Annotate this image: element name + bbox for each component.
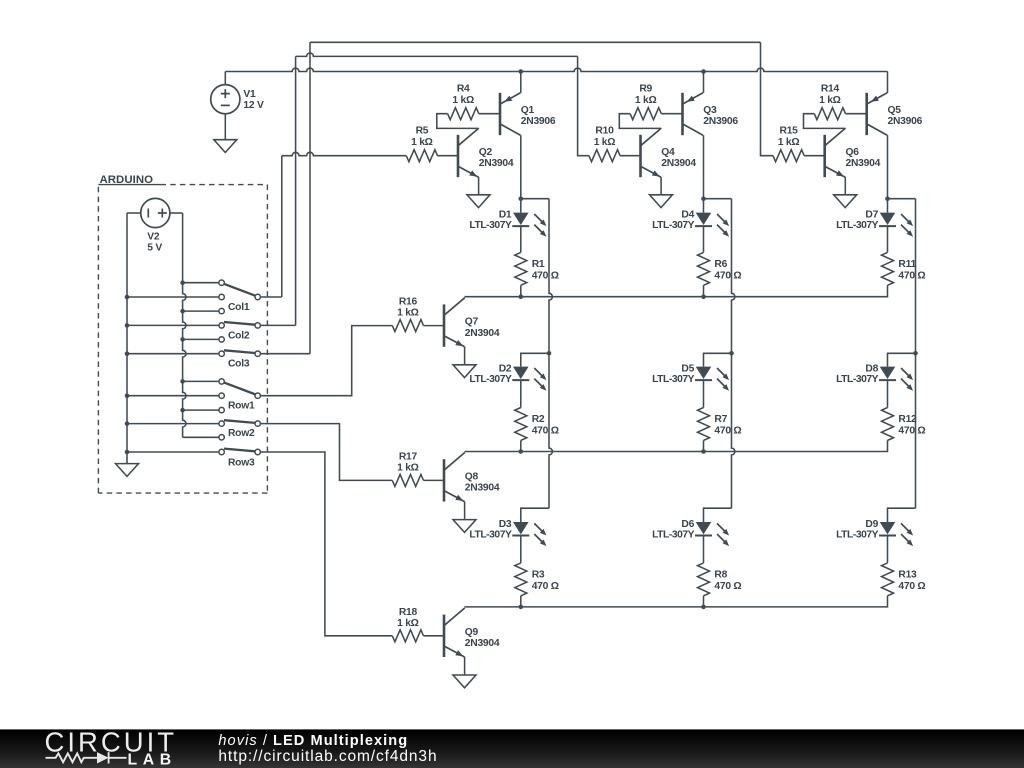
node 5V rail Col3 <box>180 337 185 342</box>
svg-text:Q2: Q2 <box>479 147 493 158</box>
LED D2 LTL-307Y <box>513 367 529 379</box>
LED D8 LTL-307Y <box>880 367 896 379</box>
wire Q6 emitter <box>844 177 846 195</box>
wire R1 to row bus <box>520 285 522 296</box>
wire Row1 out <box>260 326 392 396</box>
wire branch vertical col1 <box>549 199 552 509</box>
LED D9 LTL-307Y <box>880 522 896 534</box>
wire Q1 collector <box>520 135 522 199</box>
resistor R10 1k <box>589 150 620 162</box>
svg-text:LTL-307Y: LTL-307Y <box>836 220 879 231</box>
svg-text:Col1: Col1 <box>228 302 250 313</box>
wire Q3 collector <box>703 135 705 199</box>
svg-text:Q1: Q1 <box>521 105 535 116</box>
wire Q7 emitter <box>464 347 466 365</box>
svg-text:1 kΩ: 1 kΩ <box>819 95 841 106</box>
svg-text:R7: R7 <box>714 414 727 425</box>
wire gnd feed Col3 <box>127 353 219 355</box>
node 5V rail Col2 <box>180 309 185 314</box>
wire Col2 top run <box>296 53 578 56</box>
ground Q7 <box>453 365 476 378</box>
svg-text:R18: R18 <box>399 607 418 618</box>
wire Row2 out <box>260 424 392 481</box>
wire branch jog col2 <box>704 198 732 200</box>
wire Col2 out <box>260 324 295 326</box>
svg-text:http://circuitlab.com/cf4dn3h: http://circuitlab.com/cf4dn3h <box>218 748 437 765</box>
node R1 on row1 bus <box>519 294 524 299</box>
ground ARDUINO <box>116 464 139 477</box>
svg-text:470 Ω: 470 Ω <box>532 581 559 592</box>
wire Col2 riser <box>295 56 297 325</box>
svg-text:R5: R5 <box>416 125 429 136</box>
svg-text:Q9: Q9 <box>465 627 479 638</box>
voltage source V1 12V <box>211 85 240 114</box>
wire collector to row1 LED col2 <box>703 199 705 213</box>
wire D6 cathode to R8 <box>703 536 705 563</box>
wire gnd feed Col2 <box>127 324 219 326</box>
LED D5 LTL-307Y <box>696 367 712 379</box>
wire branch tap row2 col1 <box>521 353 549 366</box>
transistor Q5 2N3906 (PNP) <box>867 93 888 104</box>
LED D7 LTL-307Y <box>880 213 896 225</box>
transistor Q4 2N3904 (NPN) <box>639 135 642 177</box>
svg-text:1 kΩ: 1 kΩ <box>778 137 800 148</box>
wire branch vertical col3 <box>915 199 917 509</box>
wire Col1 out <box>260 296 281 298</box>
voltage source V2 5V <box>141 198 170 227</box>
wire branch jog col1 <box>521 198 549 200</box>
node gnd rail Row2 <box>125 421 130 426</box>
svg-text:R10: R10 <box>595 125 614 136</box>
svg-text:Row3: Row3 <box>228 458 255 469</box>
node R7 on row2 bus <box>701 449 706 454</box>
ARDUINO dashed box <box>161 184 268 186</box>
transistor Q9 2N3904 (NPN) <box>443 615 446 657</box>
svg-text:2N3904: 2N3904 <box>661 158 696 169</box>
resistor R16 1k <box>392 320 423 332</box>
switch Row2 <box>219 407 224 412</box>
wire Q9 emitter <box>464 657 466 675</box>
LED D3 LTL-307Y <box>513 522 529 534</box>
wire Q2 emitter <box>478 177 480 195</box>
LED D4 LTL-307Y <box>696 213 712 225</box>
wire Q8 base <box>424 479 445 481</box>
wire rail down to Q5 emitter <box>887 72 889 93</box>
wire Q6 base <box>804 155 825 157</box>
switch Col2 <box>219 308 224 313</box>
resistor R18 1k <box>392 630 423 642</box>
svg-text:1 kΩ: 1 kΩ <box>397 618 419 629</box>
svg-text:1 kΩ: 1 kΩ <box>397 463 419 474</box>
resistor R5 1k <box>406 150 437 162</box>
wire 5V rail vertical <box>183 213 186 437</box>
node 5V rail Col1 <box>180 280 185 285</box>
wire Q4 base <box>620 155 640 157</box>
wire Q3 emitter <box>703 72 705 93</box>
svg-text:R8: R8 <box>714 570 727 581</box>
svg-text:LTL-307Y: LTL-307Y <box>836 374 879 385</box>
wire gnd feed Row1 <box>127 395 219 397</box>
ground Q8 <box>453 520 476 533</box>
node Q5 collector junction <box>885 196 890 201</box>
resistor R15 1k <box>773 150 804 162</box>
node branch row2 col1 <box>547 351 552 356</box>
wire branch tap row3 col3 <box>888 508 916 522</box>
svg-text:Q5: Q5 <box>888 105 902 116</box>
resistor R6 470 <box>698 252 710 285</box>
wire Col3 drop to R15 <box>761 42 774 155</box>
svg-text:LTL-307Y: LTL-307Y <box>469 220 512 231</box>
svg-text:V1: V1 <box>243 89 256 100</box>
wire D4 cathode to R6 <box>703 226 705 252</box>
wire R4 to NPN collector step <box>437 114 479 129</box>
svg-text:R14: R14 <box>821 83 840 94</box>
wire Col3 top run <box>310 41 761 43</box>
CircuitLab logo circuit line <box>46 753 98 762</box>
svg-text:R16: R16 <box>399 297 418 308</box>
svg-text:2N3904: 2N3904 <box>846 158 881 169</box>
resistor R4 1k <box>448 108 479 120</box>
wire Q1 base <box>479 113 500 115</box>
svg-text:12 V: 12 V <box>243 100 264 111</box>
wire D1 cathode to R1 <box>520 226 522 252</box>
svg-text:D5: D5 <box>681 364 694 375</box>
node branch row2 col3 <box>913 351 918 356</box>
svg-text:R17: R17 <box>399 452 418 463</box>
wire Q5 base <box>846 113 867 115</box>
svg-text:1 kΩ: 1 kΩ <box>397 308 419 319</box>
svg-text:LTL-307Y: LTL-307Y <box>652 374 695 385</box>
svg-text:2N3904: 2N3904 <box>465 328 500 339</box>
svg-text:D9: D9 <box>865 519 878 530</box>
svg-text:470 Ω: 470 Ω <box>898 271 925 282</box>
wire D5 cathode to R7 <box>703 380 705 407</box>
wire Q4 emitter <box>660 177 662 195</box>
svg-text:D6: D6 <box>681 519 694 530</box>
resistor R11 470 <box>882 252 894 285</box>
resistor R14 1k <box>814 108 845 120</box>
svg-text:1 kΩ: 1 kΩ <box>452 95 474 106</box>
wire V2 minus lead <box>127 212 141 214</box>
svg-text:R15: R15 <box>780 125 799 136</box>
wire Q7 base <box>424 325 445 327</box>
svg-text:470 Ω: 470 Ω <box>532 271 559 282</box>
resistor R7 470 <box>698 408 710 441</box>
svg-text:R9: R9 <box>639 83 652 94</box>
svg-text:1 kΩ: 1 kΩ <box>635 95 657 106</box>
wire R14 to NPN collector step <box>804 114 846 129</box>
wire Q8 emitter <box>464 502 466 520</box>
switch Col1 <box>219 280 224 285</box>
svg-text:2N3906: 2N3906 <box>703 116 738 127</box>
svg-text:R3: R3 <box>532 570 545 581</box>
node branch row2 col2 <box>729 351 734 356</box>
node 5V rail Row2 <box>180 408 185 413</box>
node Q1 collector junction <box>519 196 524 201</box>
wire Col1 net to R5 <box>282 152 407 155</box>
transistor Q7 2N3904 (NPN) <box>443 304 446 346</box>
svg-text:2N3906: 2N3906 <box>888 116 923 127</box>
svg-text:LTL-307Y: LTL-307Y <box>469 529 512 540</box>
wire R9 to NPN collector step <box>619 114 661 129</box>
resistor R8 470 <box>698 563 710 596</box>
svg-text:D1: D1 <box>499 210 512 221</box>
wire R2 to row bus <box>520 440 522 451</box>
wire R8 to row bus <box>703 596 705 607</box>
wire Q9 base <box>424 635 445 637</box>
svg-text:Row2: Row2 <box>228 428 255 439</box>
wire Q5 collector <box>887 135 889 199</box>
wire D9 cathode to R13 <box>887 536 889 563</box>
wire 5V feed Col1 <box>183 282 219 284</box>
svg-text:Q7: Q7 <box>465 317 479 328</box>
svg-text:R11: R11 <box>898 259 916 270</box>
node gnd rail Col1 <box>125 295 130 300</box>
wire D8 cathode to R12 <box>887 380 889 407</box>
wire Q3 base <box>661 113 682 115</box>
wire V2 plus lead <box>170 212 183 214</box>
wire R6 to row bus <box>703 285 705 296</box>
svg-text:470 Ω: 470 Ω <box>898 581 925 592</box>
node Q3 collector junction <box>701 196 706 201</box>
wire 5V feed Row2 <box>183 409 219 411</box>
svg-text:R6: R6 <box>714 259 727 270</box>
node R6 on row1 bus <box>701 294 706 299</box>
wire row3 bus <box>465 596 888 607</box>
node gnd rail Col3 <box>125 351 130 356</box>
wire Col2 drop to R10 <box>578 56 589 155</box>
wire D3 cathode to R3 <box>520 536 522 563</box>
svg-text:hovis / LED Multiplexing: hovis / LED Multiplexing <box>218 733 408 749</box>
switch Col3 <box>219 337 224 342</box>
wire D7 cathode to R11 <box>887 226 889 252</box>
resistor R17 1k <box>392 474 423 486</box>
svg-text:D2: D2 <box>499 364 512 375</box>
svg-text:Col2: Col2 <box>228 330 250 341</box>
svg-text:2N3904: 2N3904 <box>465 483 500 494</box>
wire gnd feed Col1 <box>127 296 219 298</box>
svg-text:R2: R2 <box>532 414 545 425</box>
svg-text:2N3906: 2N3906 <box>521 116 556 127</box>
wire row2 bus <box>465 440 888 451</box>
switch Row3 <box>219 435 224 440</box>
wire row1 bus <box>465 285 888 296</box>
node 12V rail to Q1 emitter <box>519 69 524 74</box>
svg-text:LAB: LAB <box>128 751 177 768</box>
wire Q2 base <box>438 155 459 157</box>
transistor Q2 2N3904 (NPN) <box>457 135 460 177</box>
ground Q9 <box>453 675 476 688</box>
wire branch tap row3 col2 <box>704 508 732 522</box>
wire collector to row1 LED col1 <box>520 199 522 213</box>
node 12V rail to Q3 emitter <box>701 69 706 74</box>
wire branch tap row2 col2 <box>704 353 732 366</box>
svg-text:2N3904: 2N3904 <box>465 638 500 649</box>
transistor Q8 2N3904 (NPN) <box>443 459 446 501</box>
wire Col1 riser <box>281 156 283 297</box>
ground Q4 <box>650 195 673 208</box>
ground Q6 <box>834 195 857 208</box>
svg-text:1 kΩ: 1 kΩ <box>411 137 433 148</box>
LED D6 LTL-307Y <box>696 522 712 534</box>
node 5V rail Row1 <box>180 379 185 384</box>
wire collector to row1 LED col3 <box>887 199 889 213</box>
resistor R1 470 <box>515 252 527 285</box>
svg-text:R13: R13 <box>898 570 917 581</box>
svg-text:5 V: 5 V <box>147 242 162 253</box>
svg-text:2N3904: 2N3904 <box>479 158 514 169</box>
wire Col3 out <box>260 353 310 355</box>
wire Row3 out <box>260 452 392 636</box>
svg-text:D7: D7 <box>865 210 878 221</box>
wire gnd rail vertical <box>126 213 128 452</box>
svg-text:D3: D3 <box>499 519 512 530</box>
svg-text:470 Ω: 470 Ω <box>714 271 741 282</box>
node gnd rail Row1 <box>125 393 130 398</box>
wire 5V to Row3 contact <box>183 436 219 438</box>
svg-text:Col3: Col3 <box>228 359 250 370</box>
wire Col3 riser <box>309 42 311 353</box>
wire 5V feed Row1 <box>183 380 219 382</box>
ground V1 <box>214 140 237 153</box>
svg-text:LTL-307Y: LTL-307Y <box>652 220 695 231</box>
svg-text:LTL-307Y: LTL-307Y <box>469 374 512 385</box>
svg-text:470 Ω: 470 Ω <box>532 426 559 437</box>
svg-text:470 Ω: 470 Ω <box>714 581 741 592</box>
svg-text:R1: R1 <box>532 259 545 270</box>
wire 5V feed Col2 <box>183 310 219 312</box>
svg-text:D8: D8 <box>865 364 878 375</box>
transistor Q6 2N3904 (NPN) <box>823 135 826 177</box>
svg-text:Q8: Q8 <box>465 472 479 483</box>
svg-text:V2: V2 <box>147 231 160 242</box>
svg-text:Q3: Q3 <box>703 105 717 116</box>
wire D2 cathode to R2 <box>520 380 522 407</box>
transistor Q1 2N3906 (PNP) <box>500 93 521 104</box>
svg-text:1 kΩ: 1 kΩ <box>594 137 616 148</box>
wire gnd feed Row3 <box>127 451 219 453</box>
svg-text:D4: D4 <box>681 210 694 221</box>
wire V1 top lead <box>224 72 226 85</box>
wire V1 bottom lead <box>224 114 226 140</box>
wire R7 to row bus <box>703 440 705 451</box>
svg-text:Q4: Q4 <box>661 147 675 158</box>
resistor R3 470 <box>515 563 527 596</box>
svg-text:R4: R4 <box>457 83 470 94</box>
svg-text:Q6: Q6 <box>846 147 860 158</box>
resistor R12 470 <box>882 408 894 441</box>
resistor R9 1k <box>630 108 661 120</box>
node gnd rail Col2 <box>125 323 130 328</box>
wire branch tap row2 col3 <box>888 353 916 366</box>
svg-text:LTL-307Y: LTL-307Y <box>652 529 695 540</box>
wire branch tap row3 col1 <box>521 508 549 522</box>
wire R3 to row bus <box>520 596 522 607</box>
svg-text:R12: R12 <box>898 414 917 425</box>
wire Q1 emitter <box>520 72 522 93</box>
node R8 on row3 bus <box>701 605 706 610</box>
svg-text:470 Ω: 470 Ω <box>898 426 925 437</box>
switch Row1 <box>219 379 224 384</box>
ground Q2 <box>467 195 490 208</box>
wire branch vertical col2 <box>732 199 735 509</box>
wire gnd rail to ground <box>126 452 128 464</box>
svg-text:LTL-307Y: LTL-307Y <box>836 529 879 540</box>
wire 12V rail <box>225 68 887 71</box>
node R3 on row3 bus <box>519 605 524 610</box>
transistor Q3 2N3906 (PNP) <box>683 93 704 104</box>
LED D1 LTL-307Y <box>513 213 529 225</box>
resistor R2 470 <box>515 408 527 441</box>
node R2 on row2 bus <box>519 449 524 454</box>
resistor R13 470 <box>882 563 894 596</box>
svg-text:Row1: Row1 <box>228 400 255 411</box>
node gnd rail Row3 <box>125 450 130 455</box>
wire branch jog col3 <box>888 198 916 200</box>
wire gnd feed Row2 <box>127 423 219 425</box>
wire 5V feed Col3 <box>183 338 219 340</box>
svg-text:470 Ω: 470 Ω <box>714 426 741 437</box>
